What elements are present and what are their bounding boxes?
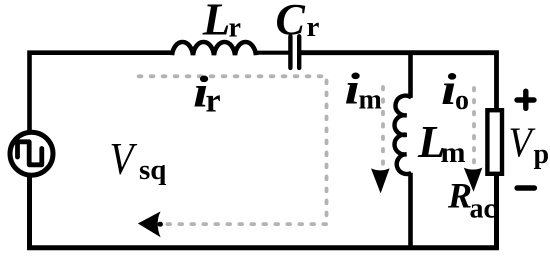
capacitor Cr: [290, 36, 299, 68]
dashed line i_o: [472, 88, 476, 166]
wire top-left and left upper: [30, 53, 173, 131]
label i_o: [441, 65, 469, 116]
svg-text:L: L: [202, 0, 231, 44]
middle branch wire (Lm branch): [408, 53, 413, 248]
source Vsq square-wave glyph: [18, 142, 42, 165]
wire Cr to top-right corner and right branch upper: [301, 53, 497, 109]
svg-text:r: r: [229, 13, 241, 44]
arrow of i_m pointing down: [371, 168, 390, 193]
plus sign: [517, 91, 534, 108]
svg-text:r: r: [206, 82, 221, 119]
wire below Rac, bottom wire, left lower: [30, 176, 497, 248]
label Lr: [202, 0, 241, 44]
svg-text:r: r: [307, 11, 320, 43]
wire Lr to Cr: [256, 51, 289, 55]
svg-text:R: R: [447, 176, 472, 216]
svg-text:m: m: [441, 136, 466, 169]
minus sign: [517, 185, 534, 191]
label i_r: [193, 67, 221, 119]
label Lm: [417, 117, 466, 169]
label Vp: [509, 120, 550, 170]
inductor Lr: [172, 42, 256, 55]
arrow of i_r pointing left: [138, 211, 163, 237]
dashed current loop i_r: [139, 76, 327, 224]
arrow of i_o pointing down: [464, 168, 483, 192]
svg-text:ac: ac: [470, 193, 496, 224]
source Vsq circle: [10, 132, 53, 175]
label Vsq: [110, 134, 167, 186]
resistor Rac box: [487, 110, 502, 174]
label i_m: [345, 64, 382, 115]
svg-text:V: V: [110, 134, 138, 184]
label Cr: [276, 0, 320, 44]
svg-text:m: m: [359, 85, 382, 116]
dashed line i_m: [381, 87, 385, 167]
svg-text:V: V: [509, 120, 536, 166]
svg-text:C: C: [276, 0, 306, 44]
svg-text:p: p: [534, 139, 550, 170]
svg-text:o: o: [455, 85, 469, 116]
svg-text:sq: sq: [139, 154, 166, 186]
label Rac: [447, 176, 496, 225]
inductor Lm coil: [395, 96, 412, 174]
